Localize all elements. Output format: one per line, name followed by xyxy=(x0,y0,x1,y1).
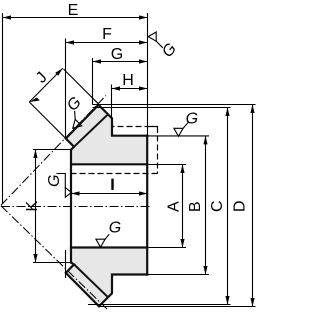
svg-text:H: H xyxy=(122,72,134,89)
svg-text:G: G xyxy=(109,220,121,237)
svg-text:E: E xyxy=(68,2,79,19)
svg-text:D: D xyxy=(232,200,249,212)
svg-text:B: B xyxy=(187,201,204,212)
svg-text:G: G xyxy=(111,46,123,63)
svg-text:K: K xyxy=(24,201,41,212)
svg-text:A: A xyxy=(166,201,183,212)
svg-text:G: G xyxy=(46,175,63,187)
svg-text:F: F xyxy=(102,26,112,43)
svg-text:G: G xyxy=(186,110,198,127)
svg-text:C: C xyxy=(209,200,226,212)
